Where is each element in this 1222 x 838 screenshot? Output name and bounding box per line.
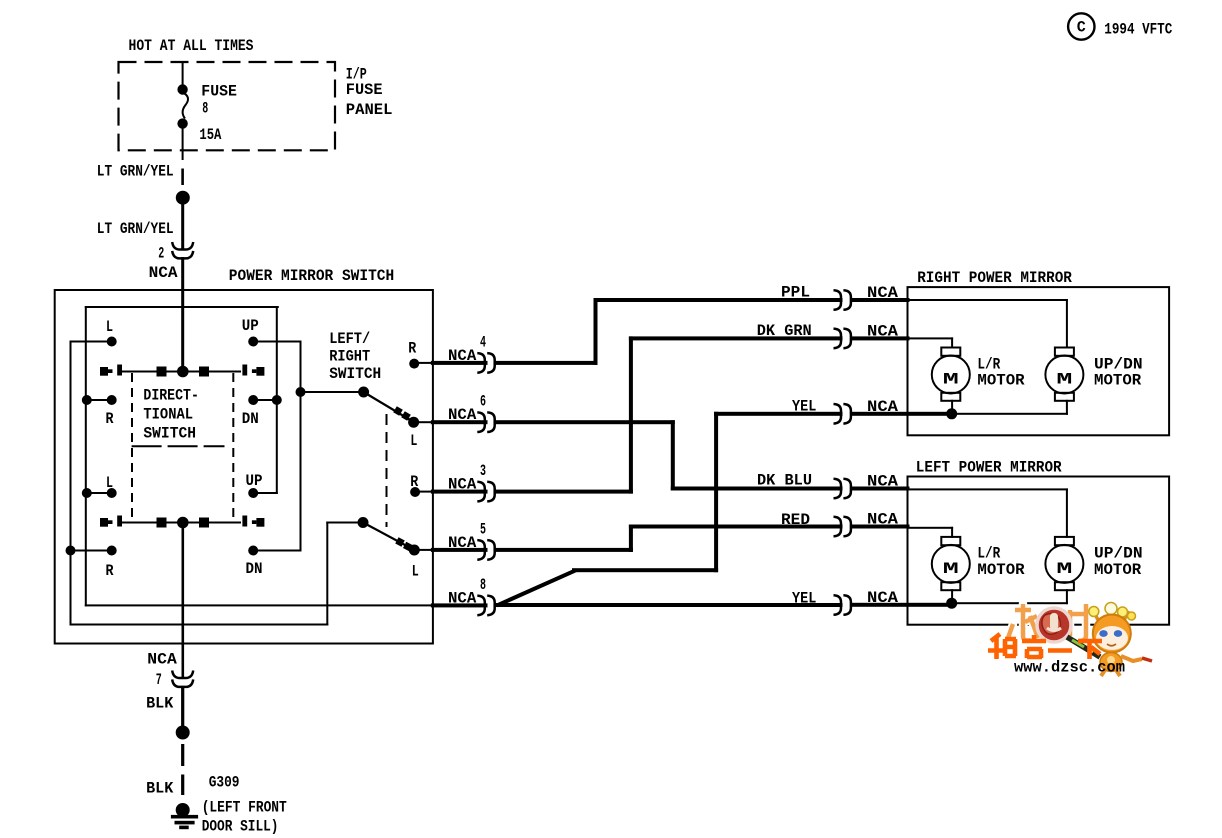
connector pin 5 symbol bbox=[477, 540, 485, 560]
junction dot bus centre y371.5 bbox=[177, 366, 189, 378]
terminal dot L lower bbox=[107, 488, 117, 498]
directional switch contact bus y522.5 bbox=[121, 522, 241, 524]
svg-text:2: 2 bbox=[158, 245, 164, 263]
svg-text:5: 5 bbox=[480, 520, 486, 538]
wire DK BLU route from pin6 bbox=[494, 420, 675, 424]
terminal dot DN lower bbox=[248, 546, 258, 556]
wire pin 8 to connector bbox=[431, 603, 488, 607]
junction dot YEL RIGHT POWER MIRROR bbox=[946, 408, 957, 419]
svg-text:POWER MIRROR SWITCH: POWER MIRROR SWITCH bbox=[229, 267, 394, 285]
wire pin 3 inside switch bbox=[414, 491, 434, 493]
wire DK GRN inside to l/r motor bbox=[907, 337, 954, 339]
svg-text:L: L bbox=[106, 318, 113, 336]
fuse F1 bottom terminal dot bbox=[177, 118, 187, 128]
svg-text:MOTOR: MOTOR bbox=[1094, 561, 1142, 579]
junction dot R lower on x70 riser bbox=[66, 546, 76, 556]
svg-text:FUSE: FUSE bbox=[201, 83, 237, 101]
connector at mirror RED bbox=[834, 517, 842, 537]
svg-text:NCA: NCA bbox=[448, 406, 477, 424]
motor UP/DN LEFT POWER MIRROR body bbox=[1045, 545, 1083, 583]
svg-text:3: 3 bbox=[480, 462, 486, 480]
svg-text:DK BLU: DK BLU bbox=[757, 472, 812, 490]
wire feed upper blade pivot bbox=[300, 391, 365, 393]
left/right switch lower blade pivot dot bbox=[358, 517, 369, 528]
svg-text:NCA: NCA bbox=[149, 264, 178, 282]
svg-text:FUSE: FUSE bbox=[346, 81, 383, 99]
wire PPL into right mirror bbox=[850, 298, 910, 302]
svg-text:NCA: NCA bbox=[448, 589, 477, 607]
svg-text:8: 8 bbox=[480, 576, 486, 594]
motor L/R RIGHT POWER MIRROR top terminal bbox=[941, 348, 960, 356]
directional switch dashed link left bbox=[131, 373, 133, 521]
wire DK GRN route from pin3 bbox=[494, 490, 633, 494]
terminal dot L lower row junction bbox=[82, 488, 92, 498]
wire BLK dash 1 bbox=[181, 744, 184, 766]
motor L/R RIGHT POWER MIRROR body bbox=[932, 356, 970, 394]
LEFT POWER MIRROR box outline bbox=[908, 477, 1170, 625]
svg-text:DIRECT-: DIRECT- bbox=[143, 386, 199, 404]
wire YEL inside LEFT POWER MIRROR bbox=[951, 602, 1068, 604]
connector pin 4 symbol bbox=[477, 353, 485, 373]
wire R upper link bbox=[85, 399, 113, 401]
directional switch dashed bottom bbox=[132, 445, 225, 447]
terminal dot UP upper bbox=[248, 337, 258, 347]
left/right switch dashed mechanical link bbox=[386, 414, 388, 527]
wire DK BLU into left mirror bbox=[850, 487, 910, 491]
wire pin 4 inside switch bbox=[413, 362, 434, 364]
ground G309 bar 2 bbox=[175, 821, 195, 825]
svg-text:SWITCH: SWITCH bbox=[143, 424, 196, 442]
directional switch contact bus y371.5 bbox=[121, 371, 241, 373]
svg-text:C: C bbox=[1077, 19, 1086, 37]
terminal dot R upper bbox=[107, 395, 117, 405]
motor L/R LEFT POWER MIRROR bottom terminal bbox=[941, 582, 960, 590]
svg-text:UP: UP bbox=[242, 317, 259, 335]
wire common rail left side bbox=[85, 306, 87, 606]
wire L-upper to left riser bbox=[70, 341, 113, 343]
fuse F1 element squiggle bbox=[183, 94, 188, 119]
connector pin 8 symbol bbox=[477, 596, 485, 616]
svg-text:www.dzsc.com: www.dzsc.com bbox=[1014, 659, 1125, 677]
motor UP/DN LEFT POWER MIRROR bottom terminal bbox=[1055, 582, 1074, 590]
svg-text:R: R bbox=[408, 339, 416, 357]
svg-text:DK GRN: DK GRN bbox=[757, 322, 812, 340]
svg-text:BLK: BLK bbox=[146, 780, 174, 798]
motor UP/DN LEFT POWER MIRROR top terminal bbox=[1055, 537, 1074, 545]
terminal dot UP lower bbox=[248, 488, 258, 498]
wire dash segment LT GRN/YEL bbox=[181, 169, 184, 186]
svg-text:7: 7 bbox=[156, 671, 162, 689]
terminal dot R upper row junction bbox=[82, 395, 92, 405]
wire lower common run y624 bbox=[70, 624, 329, 626]
svg-text:YEL: YEL bbox=[792, 590, 816, 608]
svg-text:RED: RED bbox=[781, 511, 810, 529]
wire UP lower link bbox=[252, 492, 278, 494]
connector at mirror YEL R bbox=[834, 404, 842, 424]
wire pin 3 to connector bbox=[431, 490, 488, 494]
motor L/R LEFT POWER MIRROR body bbox=[932, 545, 970, 583]
svg-text:DOOR SILL): DOOR SILL) bbox=[202, 817, 279, 835]
svg-text:15A: 15A bbox=[199, 126, 221, 144]
svg-text:MOTOR: MOTOR bbox=[1094, 372, 1142, 390]
connector at mirror PPL bbox=[834, 290, 842, 310]
wire RED route from pin5 bbox=[494, 548, 633, 552]
connector pin 3 symbol bbox=[477, 482, 485, 502]
connector at mirror DK GRN bbox=[834, 329, 842, 349]
svg-text:1994 VFTC: 1994 VFTC bbox=[1104, 20, 1172, 38]
left/right switch lower blade arm bbox=[363, 523, 414, 551]
wire pin 5 inside switch bbox=[413, 549, 434, 551]
svg-text:TIONAL: TIONAL bbox=[143, 406, 193, 424]
svg-text:RIGHT: RIGHT bbox=[329, 348, 370, 366]
terminal dot R lower bbox=[107, 546, 117, 556]
svg-text:M: M bbox=[943, 560, 959, 578]
svg-text:YEL: YEL bbox=[792, 397, 816, 415]
wire fuse top lead bbox=[182, 61, 184, 86]
wire right riser x300 bbox=[300, 341, 302, 552]
terminal dot L upper bbox=[107, 337, 117, 347]
wire pin 6 inside switch bbox=[413, 421, 434, 423]
svg-text:6: 6 bbox=[480, 393, 486, 411]
svg-text:LT GRN/YEL: LT GRN/YEL bbox=[97, 163, 174, 181]
wire pin8 row inside switch bbox=[85, 604, 434, 606]
directional switch dashed link right bbox=[232, 373, 234, 521]
lower blade contact dot L (pin5) bbox=[409, 545, 420, 556]
wire stub below fuse panel bbox=[182, 149, 184, 160]
svg-text:BLK: BLK bbox=[146, 694, 174, 712]
svg-text:NCA: NCA bbox=[147, 651, 177, 669]
motor UP/DN RIGHT POWER MIRROR bottom terminal bbox=[1055, 393, 1074, 401]
svg-text:LEFT/: LEFT/ bbox=[329, 330, 370, 348]
svg-text:G309: G309 bbox=[209, 774, 240, 792]
wire pin 5 to connector bbox=[431, 548, 488, 552]
fuse panel dashed box bbox=[119, 62, 336, 150]
terminal dot DN upper rail junction bbox=[272, 395, 282, 405]
svg-text:8: 8 bbox=[202, 100, 208, 118]
copyright circle C bbox=[1068, 13, 1094, 39]
ground G309 bar 3 bbox=[179, 826, 189, 830]
svg-text:MOTOR: MOTOR bbox=[977, 561, 1025, 579]
svg-text:DN: DN bbox=[242, 410, 259, 428]
lower blade contact dot R (pin3) bbox=[410, 487, 420, 497]
upper blade contact dot L (pin6) bbox=[408, 417, 419, 428]
svg-text:NCA: NCA bbox=[448, 476, 477, 494]
wire UP-upper to right riser bbox=[252, 341, 301, 343]
wire pin 6 to connector bbox=[431, 420, 488, 424]
wire BLK below connector bbox=[181, 686, 184, 728]
svg-text:L: L bbox=[106, 474, 113, 492]
svg-text:DN: DN bbox=[246, 560, 263, 578]
wire feed lower blade pivot bbox=[326, 522, 364, 524]
wire DK BLU inside to up/dn motor bbox=[907, 488, 1068, 490]
svg-text:PPL: PPL bbox=[781, 284, 810, 302]
connector at mirror YEL L bbox=[834, 595, 842, 615]
svg-text:UP: UP bbox=[246, 472, 263, 490]
junction splice dot S1 bbox=[176, 191, 190, 205]
connector at mirror DK BLU bbox=[834, 479, 842, 499]
wire DK GRN into right mirror bbox=[850, 336, 910, 340]
wire left riser x70 bbox=[70, 341, 72, 626]
wire riser to lower blade pivot bbox=[326, 522, 328, 626]
svg-text:M: M bbox=[943, 371, 959, 389]
svg-text:R: R bbox=[106, 562, 114, 580]
svg-text:M: M bbox=[1056, 560, 1072, 578]
motor UP/DN RIGHT POWER MIRROR body bbox=[1045, 356, 1083, 394]
connector 2 NCA in-line bbox=[172, 242, 193, 250]
svg-text:L: L bbox=[412, 563, 419, 581]
junction splice dot S2 bbox=[176, 726, 190, 740]
wire connector C2 to switch bbox=[181, 257, 184, 374]
watermark dzsc logo bbox=[988, 603, 1152, 677]
wire L lower link bbox=[85, 492, 113, 494]
wire BLK dash 2 bbox=[181, 775, 184, 796]
motor UP/DN RIGHT POWER MIRROR top terminal bbox=[1055, 348, 1074, 356]
fuse F1 top terminal dot bbox=[177, 84, 187, 94]
wire YEL bottom route from pin8 bbox=[494, 603, 843, 607]
junction dot upper blade feed bbox=[296, 387, 306, 397]
left/right switch upper blade pivot dot bbox=[358, 387, 369, 398]
wire PPL route from pin4 bbox=[494, 361, 598, 365]
junction dot YEL LEFT POWER MIRROR bbox=[946, 598, 957, 609]
left/right switch upper blade arm bbox=[364, 392, 414, 422]
connector 7 NCA in-line bbox=[172, 671, 193, 679]
wire DN lower link bbox=[252, 550, 301, 552]
svg-text:L: L bbox=[410, 432, 417, 450]
svg-text:HOT AT ALL TIMES: HOT AT ALL TIMES bbox=[129, 37, 254, 55]
RIGHT POWER MIRROR box outline bbox=[908, 287, 1170, 435]
svg-text:4: 4 bbox=[480, 333, 486, 351]
motor L/R LEFT POWER MIRROR top terminal bbox=[941, 537, 960, 545]
svg-text:LEFT POWER MIRROR: LEFT POWER MIRROR bbox=[916, 459, 1062, 477]
svg-text:LT GRN/YEL: LT GRN/YEL bbox=[97, 220, 174, 238]
wire YEL top route from pin8 diagonal bbox=[497, 570, 576, 605]
svg-text:M: M bbox=[1056, 371, 1072, 389]
svg-text:NCA: NCA bbox=[448, 534, 477, 552]
wire RED inside to l/r motor bbox=[907, 527, 954, 529]
upper blade contact dot R (pin4) bbox=[409, 359, 419, 369]
wire RED into left mirror bbox=[850, 525, 910, 529]
svg-text:RIGHT POWER MIRROR: RIGHT POWER MIRROR bbox=[917, 269, 1072, 287]
wire switch common to connector 7 bbox=[182, 521, 185, 678]
wire YEL inside RIGHT POWER MIRROR bbox=[951, 413, 1068, 415]
connector pin 6 symbol bbox=[477, 412, 485, 432]
svg-text:NCA: NCA bbox=[448, 347, 477, 365]
wire DN upper link bbox=[252, 399, 278, 401]
wire PPL inside to up/dn motor bbox=[907, 299, 1068, 301]
motor L/R RIGHT POWER MIRROR bottom terminal bbox=[941, 393, 960, 401]
svg-text:R: R bbox=[410, 473, 418, 491]
power mirror switch box outline bbox=[55, 290, 433, 644]
wire fuse bottom lead bbox=[182, 127, 184, 151]
wire common rail right side bbox=[276, 306, 278, 494]
svg-text:(LEFT FRONT: (LEFT FRONT bbox=[202, 798, 287, 816]
wire common rail top bbox=[85, 306, 279, 308]
wire pin 4 to connector bbox=[431, 361, 488, 365]
svg-text:R: R bbox=[106, 410, 114, 428]
wire R lower link bbox=[70, 550, 113, 552]
wire YEL into right mirror bbox=[850, 412, 954, 416]
svg-text:SWITCH: SWITCH bbox=[329, 365, 381, 383]
wire YEL into left mirror bbox=[850, 603, 954, 607]
ground G309 bar 1 bbox=[171, 815, 198, 819]
junction dot bus centre y522.5 bbox=[177, 517, 189, 529]
ground G309 terminal dot bbox=[176, 803, 190, 817]
terminal dot DN upper bbox=[248, 395, 258, 405]
wire from splice to connector C2 bbox=[181, 204, 184, 250]
svg-text:PANEL: PANEL bbox=[346, 101, 393, 119]
svg-text:MOTOR: MOTOR bbox=[977, 372, 1025, 390]
